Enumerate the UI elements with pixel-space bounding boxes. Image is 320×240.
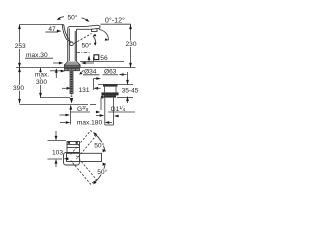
svg-text:47: 47 [48,26,56,33]
svg-text:253: 253 [15,43,26,50]
svg-text:max.: max. [35,71,49,78]
svg-text:0°-12°: 0°-12° [105,15,125,24]
svg-text:131: 131 [78,87,89,94]
svg-text:35-45: 35-45 [122,88,139,95]
svg-text:50°: 50° [68,14,78,22]
svg-text:50°: 50° [97,168,107,176]
svg-text:56: 56 [100,55,108,62]
svg-text:230: 230 [125,41,136,48]
svg-text:50°: 50° [94,142,104,150]
svg-text:390: 390 [13,85,24,92]
svg-text:300: 300 [36,79,47,86]
svg-text:max.180: max.180 [77,119,103,126]
svg-text:50°: 50° [82,42,92,50]
svg-text:103: 103 [52,150,63,157]
